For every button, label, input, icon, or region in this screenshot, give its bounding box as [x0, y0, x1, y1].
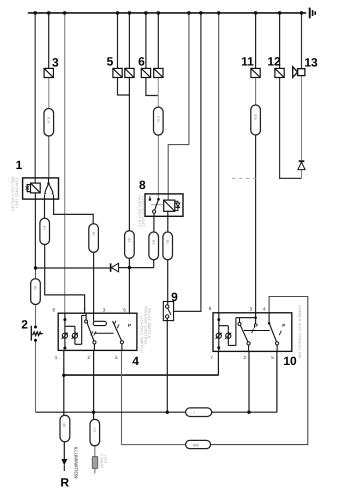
svg-text:1: 1 [16, 158, 23, 172]
svg-text:LIGHTING SWITCH: LIGHTING SWITCH [140, 316, 144, 353]
svg-text:M/C: M/C [193, 443, 200, 447]
svg-text:1: 1 [193, 411, 195, 415]
svg-text:P: P [254, 323, 259, 330]
svg-text:RELAY SWITCH: RELAY SWITCH [147, 308, 151, 339]
svg-text:131: 131 [93, 427, 97, 433]
svg-text:HEADLIGHT RLY: HEADLIGHT RLY [137, 195, 141, 228]
svg-text:6: 6 [138, 54, 145, 68]
svg-text:11: 11 [241, 54, 254, 68]
svg-text:B2: B2 [91, 232, 95, 236]
svg-text:2: 2 [87, 355, 90, 360]
svg-text:5: 5 [123, 308, 126, 313]
svg-text:TAILLIGHT RELAY: TAILLIGHT RELAY [11, 176, 15, 211]
svg-text:B3: B3 [127, 238, 131, 242]
svg-text:2: 2 [244, 355, 247, 360]
svg-text:7: 7 [210, 355, 213, 360]
svg-text:3: 3 [103, 308, 106, 313]
svg-text:13: 13 [304, 56, 318, 70]
svg-text:5: 5 [115, 355, 118, 360]
svg-text:B5: B5 [165, 240, 169, 244]
svg-text:HTR: HTR [103, 455, 107, 463]
svg-text:R: R [60, 476, 69, 490]
svg-text:3: 3 [52, 56, 59, 70]
svg-text:B4: B4 [151, 240, 155, 244]
svg-text:4B: 4B [62, 423, 66, 428]
svg-text:P: P [128, 323, 131, 328]
svg-text:5: 5 [107, 54, 114, 68]
svg-text:7: 7 [83, 308, 86, 313]
svg-text:5: 5 [271, 355, 274, 360]
svg-text:CONTROL UNIT: CONTROL UNIT [15, 178, 19, 209]
svg-text:B26: B26 [253, 114, 257, 120]
svg-text:B6: B6 [33, 286, 37, 290]
svg-text:2: 2 [21, 317, 28, 331]
svg-text:F-SEAT: F-SEAT [100, 454, 104, 469]
svg-text:B1: B1 [42, 226, 46, 230]
svg-text:ILLUMINATION: ILLUMINATION [74, 447, 79, 479]
svg-text:B14: B14 [47, 117, 51, 123]
svg-text:ETE: ETE [156, 116, 160, 123]
svg-text:12: 12 [267, 54, 281, 68]
svg-text:4: 4 [263, 306, 266, 311]
svg-text:9: 9 [171, 290, 178, 304]
svg-text:3: 3 [250, 306, 253, 311]
svg-text:6: 6 [53, 308, 56, 313]
svg-text:8: 8 [139, 178, 146, 192]
svg-text:4: 4 [132, 354, 139, 368]
svg-text:P: P [282, 323, 285, 328]
svg-text:10: 10 [283, 354, 297, 368]
svg-text:DIMMER AND PASSING SW: DIMMER AND PASSING SW [298, 305, 302, 358]
svg-text:CONTROL UNIT: CONTROL UNIT [141, 196, 145, 227]
svg-text:6: 6 [209, 306, 212, 311]
svg-text:1: 1 [55, 355, 58, 360]
